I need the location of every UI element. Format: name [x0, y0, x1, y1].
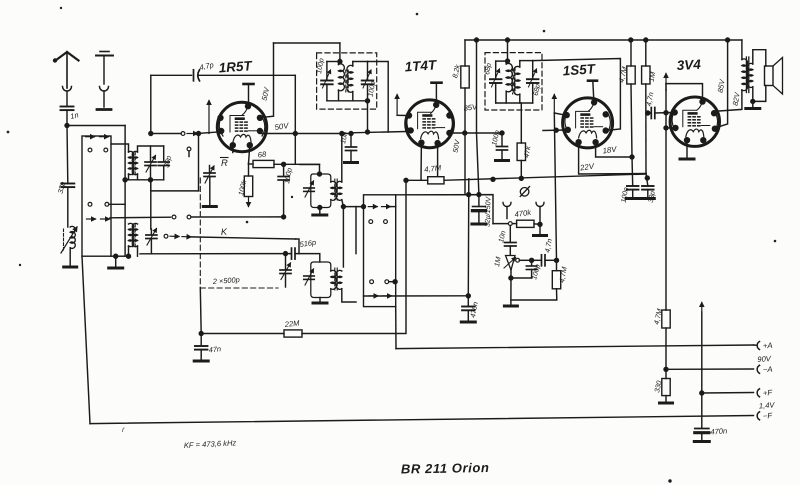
- label 100k: [236, 179, 248, 197]
- IF2 capacitor 68p left: [490, 61, 502, 103]
- resistor 22M: [284, 330, 302, 337]
- contact K row1: [172, 215, 286, 219]
- resistor 330: [662, 369, 670, 395]
- title BR 211 Orion: [401, 460, 490, 477]
- capacitor 10n det: [505, 226, 517, 256]
- label 90V: [757, 354, 772, 364]
- wire anode drop: [261, 43, 274, 118]
- antenna symbol: [53, 52, 78, 88]
- wire 3V4 lower left pin: [664, 126, 674, 130]
- stub bottom pin: [232, 145, 234, 152]
- IF1 core: [346, 70, 348, 92]
- IF2 trimmer arrow left: [492, 69, 500, 87]
- IF1 primary top bus: [327, 61, 340, 63]
- wire 4,7M to -A: [664, 328, 668, 371]
- trimmer capacitor T2: [146, 229, 157, 254]
- wire C+A: [396, 345, 754, 349]
- svg-text:+A: +A: [763, 341, 773, 351]
- wire box to T1 primary: [111, 144, 129, 152]
- label 1,4V: [759, 400, 776, 410]
- variable capacitor osc2: [304, 269, 315, 285]
- label 516p: [299, 238, 317, 249]
- wire down to band switch: [124, 126, 126, 257]
- earth plug contact: [97, 87, 111, 110]
- wire 22M left: [199, 331, 284, 335]
- svg-text:2 ×500p: 2 ×500p: [212, 275, 240, 286]
- terminal -F: [757, 412, 759, 420]
- resistor 4,7M output: [662, 310, 670, 328]
- capacitor 4,7n AF: [542, 255, 559, 266]
- svg-text:4,7n: 4,7n: [644, 91, 655, 106]
- label 68: [257, 150, 267, 160]
- wire filter node row: [396, 192, 493, 223]
- wire secondary bottom: [751, 86, 766, 104]
- capacitor 470n detector: [462, 294, 475, 321]
- resistor 1M: [642, 40, 650, 84]
- wire filament pin drop b: [437, 143, 439, 176]
- label 22M: [283, 318, 300, 329]
- wire osc feedback drop: [293, 75, 297, 164]
- svg-text:1M: 1M: [647, 71, 658, 82]
- svg-text:50V: 50V: [451, 138, 462, 153]
- label 18V: [602, 145, 618, 156]
- wire 68 node row: [274, 162, 320, 166]
- capacitor 33p out: [642, 186, 654, 197]
- wire osc1 top lead: [300, 165, 322, 177]
- wire antenna series branch: [66, 126, 69, 184]
- label 68p IF2 left: [484, 63, 493, 76]
- ground under box: [109, 256, 123, 268]
- wire T1 bus to gang: [151, 181, 199, 191]
- chassis solid segment: [199, 288, 202, 334]
- IF1 bottom lead down: [365, 101, 369, 134]
- wire coil to ground: [69, 248, 71, 266]
- capacitor 100p under IF2: [497, 133, 508, 159]
- svg-text:50V: 50V: [274, 121, 290, 132]
- svg-text:10n: 10n: [496, 230, 507, 244]
- wire 4,7M screen down: [631, 84, 633, 186]
- capacitor 516p: [292, 248, 320, 262]
- ground under osc1: [313, 214, 327, 217]
- label 4,7M: [424, 163, 442, 174]
- output transformer core: [746, 57, 748, 93]
- wire aux vertical: [355, 207, 357, 254]
- svg-text:516p: 516p: [299, 238, 317, 249]
- wire screen drop: [464, 88, 466, 195]
- ground under osc2: [313, 302, 327, 305]
- capacitor 10n: [346, 131, 357, 161]
- svg-text:R: R: [221, 157, 228, 168]
- label tube 3V4: [676, 57, 701, 73]
- capacitor 100n: [627, 186, 639, 197]
- label 330: [652, 380, 663, 394]
- svg-text:100p: 100p: [316, 58, 326, 75]
- ground under 32u: [472, 223, 486, 226]
- svg-text:K: K: [221, 227, 229, 237]
- capacitor 33p: [61, 184, 74, 228]
- wire filament pin drop a: [420, 143, 422, 181]
- wire K bus row3: [140, 253, 291, 255]
- wire grid row 1T4T: [351, 132, 406, 133]
- wire rail to 32u: [477, 40, 479, 195]
- wire gang feed: [196, 131, 200, 191]
- switch contacts row4 arrows: [87, 217, 110, 221]
- wire 4,7M to pot gnd: [511, 289, 557, 300]
- top cap 1S5T: [588, 81, 597, 100]
- top cap 1T4T: [432, 83, 442, 102]
- svg-text:470k: 470k: [514, 208, 533, 219]
- osc1 secondary coil: [336, 181, 342, 200]
- pot wiper contact: [516, 258, 529, 262]
- label 68p IF2 right: [533, 84, 542, 97]
- wire row3 to vertical: [109, 203, 125, 205]
- label 470n filament: [710, 426, 727, 436]
- svg-text:4,7n: 4,7n: [543, 238, 554, 253]
- wire T2 bottoms to bus: [126, 246, 137, 258]
- wire grid row: [149, 131, 181, 135]
- label K: [221, 227, 229, 237]
- capacitor 470n filament: [695, 428, 709, 440]
- svg-text:68p: 68p: [484, 63, 493, 76]
- wire osc2 bottom: [319, 298, 321, 302]
- resistor 4,7M grid: [552, 260, 560, 289]
- svg-text:47n: 47n: [208, 344, 221, 354]
- svg-text:ŕ: ŕ: [122, 427, 125, 434]
- label 4,7p: [199, 60, 215, 72]
- IF2 trimmer arrow right: [529, 69, 537, 87]
- label 4,7M screen: [617, 66, 629, 84]
- IF2 bottom bus: [496, 102, 533, 104]
- wire IF2 sec bottom lead: [520, 103, 522, 143]
- ground under 100p: [496, 159, 509, 162]
- IF2 primary coil: [506, 61, 512, 103]
- svg-text:22V: 22V: [579, 162, 596, 173]
- resistor 8,2k: [461, 66, 469, 88]
- label 82V rot: [731, 91, 742, 107]
- osc1 coil: [331, 181, 337, 200]
- IF1 secondary coil: [347, 62, 353, 101]
- wire 3V4 cathode gnd: [686, 140, 688, 157]
- label tube 1T4T: [404, 57, 438, 74]
- transformer T2 secondary coil: [132, 223, 137, 246]
- IF1 trimmer arrow left: [323, 70, 331, 88]
- svg-text:30p: 30p: [162, 155, 173, 169]
- osc2 secondary coil: [336, 270, 342, 289]
- transformer T1 core: [133, 152, 135, 175]
- terminal +A: [754, 342, 760, 350]
- IF1 secondary top bus: [353, 62, 388, 133]
- transformer T2 core: [133, 224, 135, 247]
- wire B- bus: [444, 174, 646, 182]
- label tube 1S5T: [562, 61, 597, 78]
- svg-text:100p: 100p: [368, 81, 378, 98]
- wire secondary top to speaker: [753, 50, 766, 66]
- IF2 dashed box: [485, 53, 542, 110]
- IF1 trimmer arrow right: [363, 70, 371, 88]
- ground under 3V4: [680, 158, 694, 161]
- phone jack circle: [520, 187, 529, 197]
- label 1n: [69, 110, 79, 121]
- svg-text:470n: 470n: [468, 301, 480, 318]
- tube 1R5T: [217, 102, 266, 151]
- wire osc1 bottom: [318, 205, 322, 213]
- label 22V: [579, 162, 596, 173]
- grid arrow 3V4: [664, 74, 703, 102]
- label KF frequency: [184, 438, 237, 450]
- resistor 4,7M screen: [627, 40, 635, 84]
- output transformer primary: [742, 59, 748, 91]
- label 2x500p: [212, 275, 240, 286]
- box2 contacts row1: [361, 204, 395, 208]
- resistor 100k: [244, 164, 252, 197]
- antenna plug contact: [63, 87, 72, 107]
- svg-text:33p: 33p: [648, 191, 657, 204]
- svg-text:100k: 100k: [236, 179, 248, 197]
- wire anode 1T4T: [451, 131, 504, 135]
- label 470n: [468, 301, 480, 318]
- svg-text:−A: −A: [763, 365, 773, 375]
- transformer T2 primary coil: [129, 223, 134, 246]
- box2 contacts row2: [369, 220, 388, 224]
- svg-text:18V: 18V: [602, 145, 618, 156]
- wire 470k to gnd node: [534, 222, 542, 234]
- terminal -A: [757, 365, 759, 373]
- IF1 primary coil: [339, 62, 345, 101]
- top rail right: [465, 38, 742, 42]
- grid arrow 1T4T: [395, 95, 407, 116]
- wire top rail left: [274, 42, 340, 44]
- transformer T1 primary coil: [129, 151, 134, 174]
- switch contact on grid wire: [181, 132, 218, 136]
- wire C+F: [700, 391, 754, 395]
- variable capacitor osc1: [304, 181, 315, 197]
- switch contacts row3 circles: [88, 202, 109, 206]
- IF2 capacitor 68p right: [527, 61, 539, 103]
- label tube 1R5T: [218, 58, 254, 75]
- IF2 secondary coil: [514, 61, 520, 103]
- switch box 2: [364, 195, 396, 307]
- svg-text:4,7M: 4,7M: [557, 266, 569, 283]
- wire K bus row1: [110, 216, 171, 219]
- ground under jack: [534, 234, 547, 237]
- label 85V: [463, 102, 479, 113]
- wire 50V anode row: [261, 133, 351, 135]
- wire 47k to B- bus: [520, 161, 522, 179]
- ground under pot: [504, 305, 517, 308]
- wire osc1 sec bottom: [341, 200, 345, 267]
- IF2 core: [513, 68, 515, 94]
- label 100p: [282, 167, 294, 184]
- potentiometer 1M: [504, 256, 516, 271]
- svg-text:100p: 100p: [282, 167, 294, 184]
- ground under 470n filament: [694, 440, 709, 443]
- label 10n: [338, 131, 349, 145]
- label +F: [763, 388, 774, 398]
- label 100p under IF2: [491, 130, 501, 147]
- svg-text:68p: 68p: [533, 84, 542, 97]
- svg-text:90V: 90V: [757, 354, 772, 364]
- wire pot bottom: [510, 270, 512, 305]
- capacitor 100p: [278, 164, 289, 217]
- IF2 feed from rail: [505, 40, 509, 63]
- ground under 470n: [461, 321, 475, 324]
- label 100n: [621, 187, 631, 204]
- ground under 10n: [345, 161, 358, 164]
- capacitor 1n: [61, 107, 74, 126]
- trimmer capacitor T1: [145, 146, 156, 180]
- label 47k: [522, 145, 533, 158]
- capacitor 32u/150V: [473, 195, 486, 223]
- svg-text:BR 211 Orion: BR 211 Orion: [401, 460, 490, 477]
- svg-text:68: 68: [257, 150, 267, 160]
- label 100p AF: [531, 264, 542, 281]
- svg-text:50V: 50V: [260, 86, 272, 102]
- stray mark apostrophe: [122, 427, 125, 434]
- svg-text:4,7M: 4,7M: [424, 163, 442, 174]
- label 33p out: [648, 191, 657, 204]
- label 50V rotated: [260, 86, 272, 102]
- switch contacts row1 arrows: [86, 135, 109, 139]
- wire C-A: [666, 368, 754, 370]
- switch contacts row2 circles: [88, 148, 108, 152]
- variable capacitor 500p A: [280, 251, 291, 287]
- svg-text:82V: 82V: [731, 91, 742, 107]
- capacitor 4,7p: [194, 70, 296, 81]
- label 100p IF1 left: [316, 58, 326, 75]
- wire 18V: [596, 142, 635, 159]
- ground under L1: [64, 266, 77, 269]
- wire K bus row2: [164, 234, 299, 253]
- box2 contacts row3: [370, 280, 398, 284]
- label 85V rot: [716, 78, 727, 94]
- wire T1 bus down: [150, 180, 152, 229]
- resistor 68: [249, 160, 275, 167]
- wire antenna node to switch box: [67, 125, 125, 127]
- svg-text:KF = 473,6 kHz: KF = 473,6 kHz: [184, 438, 237, 450]
- ground under 33p: [641, 197, 654, 200]
- ground under speaker: [746, 101, 760, 108]
- speaker: [765, 58, 783, 95]
- tuning gang dashed outline: [200, 178, 278, 288]
- oscillator tank 1 loop: [311, 174, 331, 208]
- wire osc2 sec bottom: [342, 289, 356, 302]
- jack contact hook left: [503, 203, 511, 219]
- svg-text:47k: 47k: [522, 145, 533, 158]
- osc2 core: [335, 268, 337, 290]
- resistor 47k: [517, 143, 525, 161]
- IF1 dashed box: [317, 53, 377, 109]
- label 47n: [208, 344, 221, 354]
- wire rail to output transformer: [741, 40, 743, 60]
- wire screen 3V4: [717, 40, 728, 128]
- svg-text:1R5T: 1R5T: [218, 58, 254, 75]
- trimmer capacitor grid: [204, 166, 215, 206]
- vertical from cap wire: [150, 75, 152, 133]
- ground under 47n: [194, 360, 208, 363]
- wire grid chain down: [665, 90, 667, 310]
- wire box bottom extension: [111, 254, 125, 258]
- osc1 core: [335, 179, 337, 200]
- ground under 330: [660, 396, 673, 403]
- capacitor 4,7n coupling: [646, 108, 673, 119]
- terminal +F: [757, 389, 759, 397]
- svg-text:470n: 470n: [710, 426, 727, 436]
- osc2 coil: [331, 270, 337, 289]
- svg-text:100p: 100p: [491, 130, 501, 147]
- wire IF2 to 1S5T anode: [533, 59, 621, 131]
- svg-text:33p: 33p: [56, 181, 67, 195]
- label 4,7M grid: [557, 266, 569, 283]
- label 32u/150V: [485, 195, 493, 227]
- resistor 470k: [512, 220, 534, 227]
- band switch box 1: [82, 136, 111, 256]
- wire 1S5T aux pin: [543, 128, 566, 132]
- IF1 capacitor 100p right: [362, 62, 374, 101]
- label 4,7M output: [652, 308, 664, 326]
- label 1M: [647, 71, 658, 82]
- svg-text:3V4: 3V4: [676, 57, 701, 73]
- wire 22M right: [302, 180, 406, 333]
- earth terminal top: [96, 52, 113, 85]
- tube 1S5T: [563, 98, 613, 148]
- wire 22V: [579, 142, 646, 174]
- svg-text:85V: 85V: [716, 78, 727, 94]
- wire to switch box2: [343, 206, 363, 208]
- wire filament pin to node: [249, 145, 250, 163]
- wire grid cap feed: [151, 74, 192, 76]
- wire AF return vertical: [466, 179, 470, 296]
- capacitor 100p AF: [509, 258, 537, 280]
- ground under trimmer: [203, 205, 216, 208]
- wire osc1 sec top: [340, 131, 344, 182]
- wire 1M down: [645, 84, 649, 186]
- filament feed arrow: [700, 303, 704, 429]
- label 8,2k: [450, 63, 462, 79]
- label 4,7n AF: [543, 238, 554, 253]
- wire wiper to 4,7n: [532, 259, 541, 261]
- junction antenna node: [65, 123, 69, 127]
- label 470k: [514, 208, 533, 219]
- svg-text:−F: −F: [763, 411, 774, 421]
- svg-text:32µ/150V: 32µ/150V: [485, 195, 493, 227]
- capacitor 30p: [158, 146, 169, 180]
- label 4,7n coupling: [644, 91, 655, 106]
- wire box2 right down: [395, 307, 397, 349]
- svg-text:1T4T: 1T4T: [404, 57, 438, 74]
- svg-text:+F: +F: [763, 388, 774, 398]
- label 50V mid: [451, 138, 462, 153]
- label R bar: [221, 157, 229, 168]
- transformer T1 secondary coil: [132, 151, 137, 174]
- wire anode to primary: [716, 90, 742, 113]
- wire C-F: [90, 416, 754, 424]
- oscillator tank 2 loop: [311, 262, 331, 298]
- AGC arrow 1R5T: [207, 101, 211, 134]
- stray dot: [669, 480, 671, 482]
- svg-text:1,4V: 1,4V: [759, 400, 776, 410]
- svg-text:22M: 22M: [283, 318, 300, 329]
- svg-text:4,7p: 4,7p: [199, 60, 215, 72]
- IF2 primary top bus: [496, 60, 508, 62]
- open contact below: [187, 147, 191, 156]
- resistor 4,7M horizontal: [404, 177, 444, 184]
- wire T1 secondary top bus: [138, 146, 164, 152]
- label +A: [763, 341, 773, 351]
- IF2 secondary top lead: [520, 60, 533, 62]
- label 30p: [162, 155, 173, 169]
- top cap 1R5T: [244, 84, 254, 103]
- IF1 bottom bus: [327, 99, 370, 103]
